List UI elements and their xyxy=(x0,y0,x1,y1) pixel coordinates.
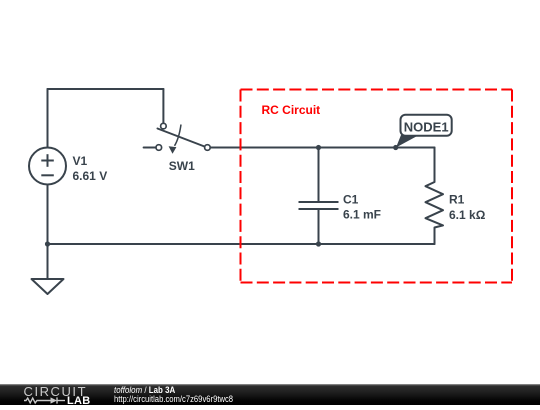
CircuitLab logo xyxy=(0,384,100,405)
junction C1 top xyxy=(316,145,321,150)
wire V1 bottom to bottom rail xyxy=(47,185,49,245)
svg-text:6.1 mF: 6.1 mF xyxy=(343,207,381,221)
wire top rail xyxy=(48,88,164,90)
svg-text:R1: R1 xyxy=(449,193,465,207)
ground xyxy=(32,279,64,294)
resistor R1 xyxy=(426,182,444,228)
wire SW1 open terminal stub xyxy=(144,147,156,149)
svg-text:LAB: LAB xyxy=(67,395,91,405)
junction C1 bottom xyxy=(316,241,321,246)
svg-text:C1: C1 xyxy=(343,193,359,207)
SW1 terminals xyxy=(156,123,210,150)
wire bottom rail xyxy=(48,243,435,245)
footer bar xyxy=(0,384,540,405)
RC Circuit dashed box xyxy=(241,90,513,283)
voltage source V1 xyxy=(29,148,66,185)
wire ground stub xyxy=(47,244,49,279)
svg-text:SW1: SW1 xyxy=(169,159,195,173)
wire C1 bottom lead xyxy=(318,209,320,244)
SW1 blade xyxy=(158,129,205,147)
footer url xyxy=(114,395,233,404)
svg-text:V1: V1 xyxy=(73,154,88,168)
svg-text:6.61 V: 6.61 V xyxy=(73,169,108,183)
footer title xyxy=(114,386,175,395)
wire C1 top lead xyxy=(318,148,320,203)
wire SW1 pin 2 to R1 branch xyxy=(211,147,435,149)
svg-text:RC Circuit: RC Circuit xyxy=(262,103,321,117)
wire top rail down to SW1 pin 1 xyxy=(162,89,164,123)
wire V1 top to top rail xyxy=(47,89,49,148)
svg-text:NODE1: NODE1 xyxy=(404,120,449,135)
wire R1 top lead xyxy=(434,148,436,183)
node NODE1 flag xyxy=(393,115,452,150)
wire R1 bottom lead xyxy=(434,228,436,245)
SW1 actuation arrow xyxy=(175,125,182,146)
capacitor C1 xyxy=(299,202,339,209)
switch SW1 xyxy=(156,123,210,153)
junction V1/ground/bottom rail xyxy=(45,241,50,246)
svg-text:6.1 kΩ: 6.1 kΩ xyxy=(449,208,486,222)
